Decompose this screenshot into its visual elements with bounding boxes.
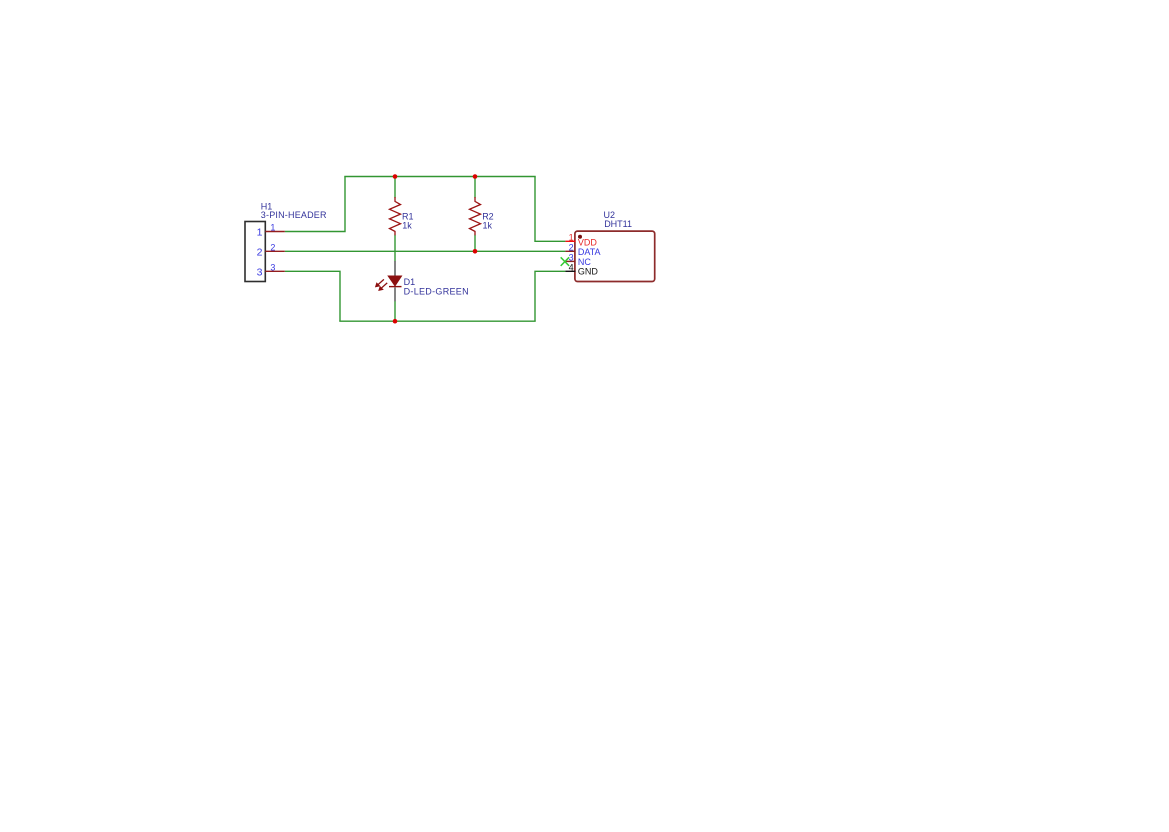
- svg-text:3: 3: [257, 266, 263, 278]
- junction dot R1 top: [393, 174, 398, 179]
- svg-text:2: 2: [270, 243, 275, 253]
- U2 pin 4 GND: [565, 262, 598, 276]
- H1 pin 1: [257, 223, 285, 239]
- wire R2 top lead: [474, 177, 476, 198]
- LED D1 emission arrow upper: [375, 279, 384, 287]
- wire R1 top lead: [394, 177, 396, 198]
- LED D1 emission arrow lower: [378, 283, 387, 291]
- junction dot LED bottom rail: [393, 319, 398, 324]
- svg-text:1: 1: [257, 227, 263, 239]
- LED D1 triangle: [388, 276, 402, 286]
- svg-text:3: 3: [270, 263, 275, 273]
- svg-text:1k: 1k: [483, 221, 493, 231]
- H1 pin 2: [257, 243, 285, 259]
- U2 pin 3 NC: [565, 253, 591, 267]
- svg-text:VDD: VDD: [578, 238, 598, 248]
- U2 pin 1 VDD: [565, 232, 597, 247]
- wire right vertical to VDD: [535, 177, 565, 242]
- resistor R1: [390, 197, 401, 235]
- svg-text:1: 1: [569, 232, 574, 242]
- resistor R2: [470, 197, 481, 235]
- wire R1 bottom to LED: [394, 235, 396, 262]
- svg-text:3-PIN-HEADER: 3-PIN-HEADER: [261, 210, 327, 220]
- H1 pin 3: [257, 263, 285, 279]
- junction dot R2 bottom on DATA net: [473, 249, 478, 254]
- wire right vertical to GND: [535, 271, 565, 321]
- svg-text:1: 1: [270, 223, 275, 233]
- svg-text:GND: GND: [578, 267, 599, 277]
- wire LED bottom lead to bottom rail: [394, 301, 396, 322]
- svg-text:D-LED-GREEN: D-LED-GREEN: [404, 286, 469, 296]
- wire bottom rail: [339, 320, 535, 322]
- svg-text:2: 2: [569, 243, 574, 253]
- wire top rail: [344, 176, 535, 178]
- U2 pin 2 DATA: [565, 243, 600, 258]
- svg-text:4: 4: [569, 262, 574, 272]
- svg-text:3: 3: [569, 253, 574, 263]
- svg-text:1k: 1k: [402, 221, 412, 231]
- svg-text:DHT11: DHT11: [604, 219, 632, 229]
- LED D1 anode lead: [394, 261, 396, 276]
- wire R2 bottom lead: [474, 235, 476, 252]
- IC U2 body: [575, 231, 655, 281]
- no-connect X on U2 pin 3: [561, 257, 569, 266]
- svg-text:2: 2: [257, 246, 263, 258]
- wire pin3 down segment: [285, 271, 340, 321]
- svg-text:DATA: DATA: [578, 247, 601, 257]
- LED D1 cathode lead: [394, 287, 396, 301]
- wire middle DATA net: [285, 250, 566, 252]
- junction dot R2 top: [473, 174, 478, 179]
- wire pin1 to left vertical: [285, 177, 345, 232]
- svg-text:NC: NC: [578, 257, 591, 267]
- LED D1 cathode bar: [389, 286, 402, 288]
- connector H1 body: [245, 222, 265, 282]
- IC U2 pin1 marker dot: [578, 235, 582, 239]
